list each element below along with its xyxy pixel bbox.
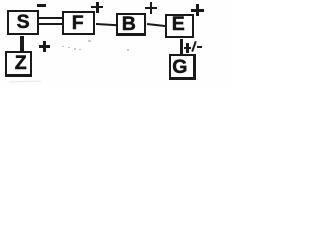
scan speck below F (1) xyxy=(62,46,64,48)
node S (box S) xyxy=(7,10,38,35)
node G (box G) xyxy=(169,54,196,80)
scan speck below F (3) xyxy=(74,48,77,50)
scan speck below F (4) xyxy=(79,49,81,51)
label F xyxy=(72,14,84,34)
minus of +/- label xyxy=(197,46,202,48)
wire S-F double line (upper) xyxy=(39,17,62,19)
scan smudge bottom-left xyxy=(9,81,41,83)
node F (box F) xyxy=(62,11,95,35)
label B xyxy=(122,15,136,35)
minus sign at S top-right xyxy=(37,4,46,7)
scan speck below F (2) xyxy=(68,47,70,49)
plus of +/- label at G top-right xyxy=(184,47,191,50)
label G xyxy=(172,58,187,78)
plus sign at F top-right xyxy=(91,6,103,9)
label S xyxy=(17,13,30,33)
label E xyxy=(172,15,185,35)
wire S-Z vertical xyxy=(20,36,24,52)
slash of +/- label xyxy=(191,41,197,52)
plus sign at E top-right xyxy=(191,9,204,12)
node B (box B) xyxy=(116,13,146,36)
node Z (box Z) xyxy=(5,51,32,77)
plus sign at B top-right xyxy=(145,7,156,10)
label Z xyxy=(15,54,27,74)
plus sign at Z top-right xyxy=(39,45,51,48)
scan speck below B xyxy=(127,49,130,51)
scan speck left of B bottom xyxy=(88,40,91,42)
wire E-G vertical xyxy=(180,39,183,54)
wire B-E (downward slope) xyxy=(147,23,166,27)
wire S-F double line (lower) xyxy=(39,23,62,25)
wire F-B (slight downward slope) xyxy=(96,23,118,27)
node E (box E) xyxy=(165,14,194,37)
